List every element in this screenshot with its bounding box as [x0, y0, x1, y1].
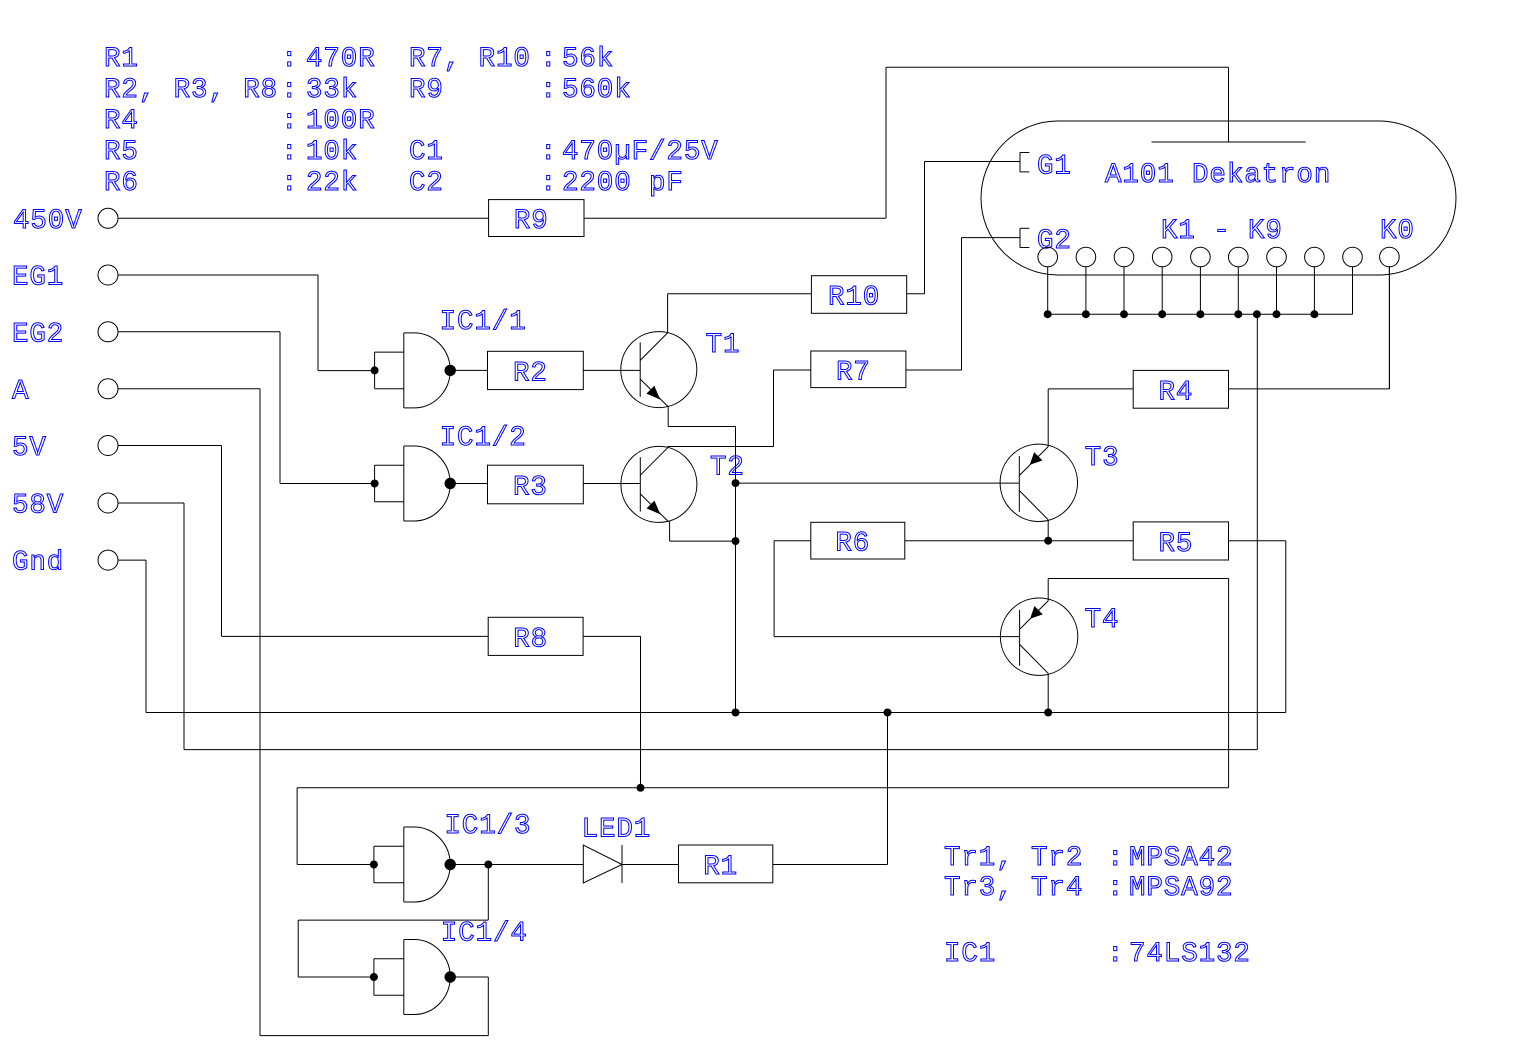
- wire R9 to anode top run: [584, 67, 1229, 218]
- svg-text:MPSA42: MPSA42: [1129, 843, 1233, 874]
- svg-text:74LS132: 74LS132: [1129, 939, 1251, 970]
- pin G1: [1020, 152, 1072, 183]
- svg-text:R9: R9: [514, 206, 549, 237]
- label K0: [1380, 216, 1415, 247]
- svg-text::: :: [540, 137, 557, 168]
- svg-text:IC1/2: IC1/2: [440, 423, 527, 454]
- svg-text:T1: T1: [706, 330, 741, 361]
- svg-text:33k: 33k: [306, 75, 358, 106]
- svg-text:MPSA92: MPSA92: [1129, 873, 1233, 904]
- svg-text:IC1/1: IC1/1: [440, 307, 527, 338]
- wire R3 to T2 base: [583, 483, 640, 485]
- svg-text:R7: R7: [836, 357, 871, 388]
- cathode pin K7: [1267, 247, 1287, 314]
- wire T3 collector down: [1047, 520, 1049, 541]
- cathode pin K6: [1229, 247, 1249, 314]
- svg-text:C1: C1: [409, 137, 444, 168]
- svg-text::: :: [540, 44, 557, 75]
- cathode pin K4: [1152, 247, 1172, 314]
- wire R8 net horizontal: [297, 787, 1229, 789]
- terminal 5V: [12, 433, 118, 464]
- svg-text:Gnd: Gnd: [12, 548, 64, 579]
- wire IC1/3 output to IC1/4 input loop: [298, 865, 488, 978]
- svg-text::: :: [1107, 843, 1124, 874]
- svg-text::: :: [1107, 873, 1124, 904]
- svg-text:R6: R6: [835, 529, 870, 560]
- node Gnd rail / T4 collector: [1044, 709, 1052, 717]
- wire T4 collector to Gnd rail: [1047, 674, 1049, 713]
- resistor R8: [488, 617, 583, 655]
- cathode pin K5: [1191, 247, 1211, 314]
- svg-text:R1: R1: [703, 852, 738, 883]
- svg-text:T4: T4: [1085, 605, 1120, 636]
- cathode pin K9: [1343, 247, 1363, 314]
- terminal Gnd: [12, 548, 118, 579]
- svg-text:K1 - K9: K1 - K9: [1161, 216, 1283, 247]
- svg-text::: :: [281, 106, 298, 137]
- svg-text:R2: R2: [513, 358, 548, 389]
- svg-text:R2, R3, R8: R2, R3, R8: [104, 75, 278, 106]
- svg-text:EG2: EG2: [12, 320, 64, 351]
- resistor R1: [679, 845, 773, 883]
- cathode bus junction dots: [1044, 310, 1319, 318]
- transistor T3 (PNP): [1000, 443, 1119, 522]
- svg-text:G2: G2: [1037, 226, 1072, 257]
- svg-text:C2: C2: [409, 168, 444, 199]
- svg-text:5V: 5V: [12, 433, 47, 464]
- svg-text:Tr3, Tr4: Tr3, Tr4: [944, 873, 1083, 904]
- node Gnd rail / R1: [884, 709, 892, 717]
- svg-text:R7, R10: R7, R10: [409, 44, 531, 75]
- wire R6 left to T4 base: [774, 541, 1020, 637]
- svg-text:R5: R5: [1158, 529, 1193, 560]
- svg-text:R10: R10: [828, 283, 880, 314]
- resistor R3: [488, 465, 584, 504]
- wire IC1/1 output to R2: [455, 369, 488, 371]
- resistor R4: [1133, 370, 1228, 408]
- dekatron tube V1 outline: [981, 121, 1456, 275]
- svg-text::: :: [540, 75, 557, 106]
- svg-text:470R: 470R: [306, 44, 376, 75]
- terminal 450V: [13, 206, 118, 237]
- svg-text:R1: R1: [104, 44, 139, 75]
- terminal 58V: [12, 491, 118, 522]
- resistor R2: [488, 351, 584, 389]
- wire A to IC1/4 output: [118, 389, 488, 1036]
- dekatron label: [1105, 160, 1331, 191]
- cathode pin K3: [1114, 247, 1134, 314]
- cathode bus: [1048, 313, 1353, 315]
- wire T1 emitter down: [668, 407, 735, 712]
- NAND gate IC1/4: [370, 918, 528, 1014]
- svg-text:58V: 58V: [12, 491, 64, 522]
- wire T2 collector to R7: [668, 370, 811, 447]
- svg-text:2200 pF: 2200 pF: [562, 168, 684, 199]
- svg-text::: :: [281, 137, 298, 168]
- wire 5V to R8: [118, 446, 488, 637]
- svg-text::: :: [540, 168, 557, 199]
- LED LED1: [582, 815, 652, 884]
- wire 58V to cathode bus: [118, 314, 1257, 749]
- svg-text:22k: 22k: [306, 168, 358, 199]
- wire R8 right elbow: [583, 636, 640, 787]
- wire LED1 to R1: [622, 864, 679, 866]
- svg-text:R9: R9: [409, 75, 444, 106]
- node T2 emitter: [732, 537, 740, 545]
- resistor R5: [1133, 522, 1228, 560]
- cathode pin K2: [1076, 247, 1096, 314]
- NAND gate IC1/1: [371, 307, 527, 408]
- NAND gate IC1/2: [371, 423, 527, 521]
- wire R2 to T1 base: [583, 369, 640, 371]
- resistor R6: [811, 522, 905, 559]
- svg-text:LED1: LED1: [582, 815, 652, 846]
- wire R1 to Gnd rail: [773, 713, 888, 865]
- node T1 emitter / T3 base: [732, 479, 740, 487]
- svg-text::: :: [281, 44, 298, 75]
- wire node T1e to T3 base: [736, 482, 1020, 484]
- svg-text:R3: R3: [513, 473, 548, 504]
- wire T4 emitter loop: [1048, 579, 1228, 788]
- svg-text:K0: K0: [1380, 216, 1415, 247]
- NAND gate IC1/3: [370, 811, 532, 902]
- transistor T1 (NPN): [621, 330, 741, 408]
- node IC1/3 output: [484, 861, 492, 869]
- svg-text:G1: G1: [1037, 152, 1072, 183]
- wire IC1/2 output to R3: [455, 483, 488, 485]
- svg-text:10k: 10k: [306, 137, 358, 168]
- wire IC1/3 output to LED1: [455, 864, 583, 866]
- svg-text:470µF/25V: 470µF/25V: [562, 137, 719, 168]
- cathode pin K0: [1380, 247, 1400, 389]
- svg-text:EG1: EG1: [12, 263, 64, 294]
- svg-text:56k: 56k: [562, 44, 614, 75]
- svg-text::: :: [281, 168, 298, 199]
- wire R7 to G2: [906, 238, 1020, 370]
- svg-text:A101 Dekatron: A101 Dekatron: [1105, 160, 1331, 191]
- resistor R7: [811, 351, 906, 388]
- wire T1 collector to R10: [668, 294, 812, 333]
- svg-text:100R: 100R: [306, 106, 376, 137]
- svg-text::: :: [281, 75, 298, 106]
- resistor R9: [489, 200, 584, 237]
- cathode pin K8: [1305, 247, 1325, 314]
- svg-text:T2: T2: [710, 453, 745, 484]
- node R8 / T4 emitter net: [637, 784, 645, 792]
- resistor R10: [811, 276, 906, 314]
- label K1 - K9: [1161, 216, 1283, 247]
- svg-text:T3: T3: [1085, 443, 1120, 474]
- svg-text:R4: R4: [104, 106, 139, 137]
- terminal A: [12, 377, 118, 408]
- svg-text:560k: 560k: [562, 75, 632, 106]
- svg-text:IC1: IC1: [944, 939, 996, 970]
- wire R4 to K0: [1229, 266, 1390, 389]
- wire Gnd rail: [118, 541, 1286, 713]
- wire R8 net to IC1/3 input: [297, 788, 374, 865]
- svg-text:R5: R5: [104, 137, 139, 168]
- svg-text:IC1/3: IC1/3: [444, 811, 531, 842]
- svg-text:IC1/4: IC1/4: [441, 918, 528, 949]
- wire R6 to R5 with T3 collector: [905, 540, 1133, 542]
- dekatron anode bar: [1152, 141, 1306, 143]
- terminal EG2: [12, 320, 118, 351]
- transistor T4 (PNP): [1000, 598, 1119, 675]
- transistor T2 (NPN): [621, 446, 745, 522]
- wire EG2 to IC1/2 input: [118, 332, 375, 484]
- svg-text:R8: R8: [513, 624, 548, 655]
- wire T2 emitter: [670, 522, 736, 542]
- wire T3 emitter to R4: [1048, 389, 1133, 447]
- wire R5 right to Gnd rail: [1229, 540, 1286, 542]
- svg-text:A: A: [12, 377, 29, 408]
- wire R10 to G1: [907, 162, 1020, 294]
- node T3 collector / R5 R6: [1044, 537, 1052, 545]
- wire EG1 to IC1/1 input: [118, 275, 375, 371]
- terminal EG1: [12, 263, 118, 294]
- svg-text:Tr1, Tr2: Tr1, Tr2: [944, 843, 1083, 874]
- cathode pin K1: [1038, 247, 1058, 314]
- pin G2: [1020, 226, 1072, 257]
- svg-text::: :: [1107, 939, 1124, 970]
- svg-text:R6: R6: [104, 168, 139, 199]
- svg-text:450V: 450V: [13, 206, 83, 237]
- wire 450V to R9: [118, 217, 489, 219]
- node Gnd rail / T2 emitter: [732, 709, 740, 717]
- svg-text:R4: R4: [1158, 377, 1193, 408]
